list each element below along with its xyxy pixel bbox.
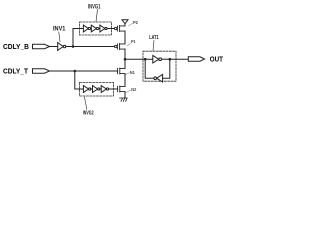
- ground: [120, 98, 128, 101]
- svg-text:INVG2: INVG2: [83, 111, 94, 117]
- port CDLY_B: [33, 44, 50, 48]
- inverter INVG2 stage 1: [83, 86, 90, 93]
- inverter INVG2 stage 3: [101, 86, 108, 93]
- wire junction up to INVG1 input: [73, 29, 83, 47]
- svg-text:N2: N2: [131, 87, 136, 92]
- inverter INVG2 stage 2: [93, 86, 100, 93]
- transistor N1: [118, 67, 125, 76]
- leader P1: [127, 43, 131, 46]
- wire INVG1 stage2 to stage3: [99, 28, 100, 30]
- node LAT1 output junction: [169, 58, 172, 61]
- delay chain box INVG2: [80, 82, 114, 96]
- wire INVG1 stage1 to stage2: [90, 28, 93, 30]
- leader N2: [126, 90, 131, 92]
- svg-text:N1: N1: [130, 70, 135, 75]
- wire LAT1 output to OUT port: [170, 58, 189, 60]
- wire junction to P1 gate: [73, 46, 114, 48]
- port OUT: [188, 57, 204, 61]
- wire CDLY_T port to junction: [50, 70, 75, 72]
- wire feedback right vertical: [163, 59, 170, 78]
- transistor P2: [115, 24, 126, 33]
- leader LAT1: [153, 41, 154, 51]
- inverter INV1: [58, 43, 66, 51]
- leader INV1: [59, 32, 60, 42]
- inverter INVG1 stage 2: [91, 25, 98, 32]
- node B junction: [72, 45, 75, 48]
- wire CDLY_B port to INV1 input: [50, 46, 58, 48]
- wire P1 drain to output node: [124, 49, 126, 59]
- VDD supply symbol: [122, 20, 128, 26]
- inverter LAT1 forward: [153, 55, 162, 63]
- svg-text:CDLY_T: CDLY_T: [3, 69, 29, 76]
- node LAT1 input junction: [144, 58, 147, 61]
- wire INVG2 output to N2 gate: [109, 88, 118, 90]
- node T junction: [74, 70, 77, 73]
- wire INVG2 stage2 to stage3: [100, 88, 101, 90]
- svg-text:CDLY_B: CDLY_B: [3, 44, 29, 51]
- wire N2 source to ground: [124, 92, 126, 98]
- inverter INVG1 stage 1: [83, 25, 90, 32]
- node P1/N1 drain junction: [124, 58, 127, 61]
- port CDLY_T: [33, 69, 50, 73]
- svg-text:INV1: INV1: [53, 25, 66, 32]
- transistor N2: [118, 85, 125, 94]
- svg-text:OUT: OUT: [210, 57, 224, 64]
- leader P2: [129, 23, 133, 25]
- wire LAT1 forward output to output junction: [162, 58, 170, 60]
- wire feedback left vertical: [145, 59, 154, 78]
- leader N1: [125, 73, 129, 75]
- svg-text:INVG1: INVG1: [88, 3, 101, 10]
- delay chain box INVG1: [80, 22, 112, 35]
- wire junction down to INVG2 input: [75, 71, 84, 89]
- wire N1 drain to output node: [124, 59, 126, 68]
- wire junction to N1 gate: [75, 70, 118, 72]
- wire INV1 output to junction: [66, 46, 73, 48]
- latch box LAT1: [143, 51, 176, 81]
- transistor P1: [115, 42, 126, 51]
- leader INVG1: [96, 10, 98, 22]
- svg-text:P2: P2: [133, 20, 138, 25]
- inverter INVG1 stage 3: [100, 25, 107, 32]
- wire node to LAT1 input: [125, 58, 153, 60]
- wire N1 source to N2 drain: [124, 74, 126, 87]
- wire P2 drain to P1 source: [124, 31, 126, 44]
- leader INVG2: [85, 97, 87, 110]
- wire INVG1 output to P2 gate: [107, 28, 114, 30]
- inverter LAT1 feedback (points left): [154, 74, 163, 82]
- svg-text:P1: P1: [131, 39, 136, 44]
- wire INVG2 stage1 to stage2: [91, 88, 93, 90]
